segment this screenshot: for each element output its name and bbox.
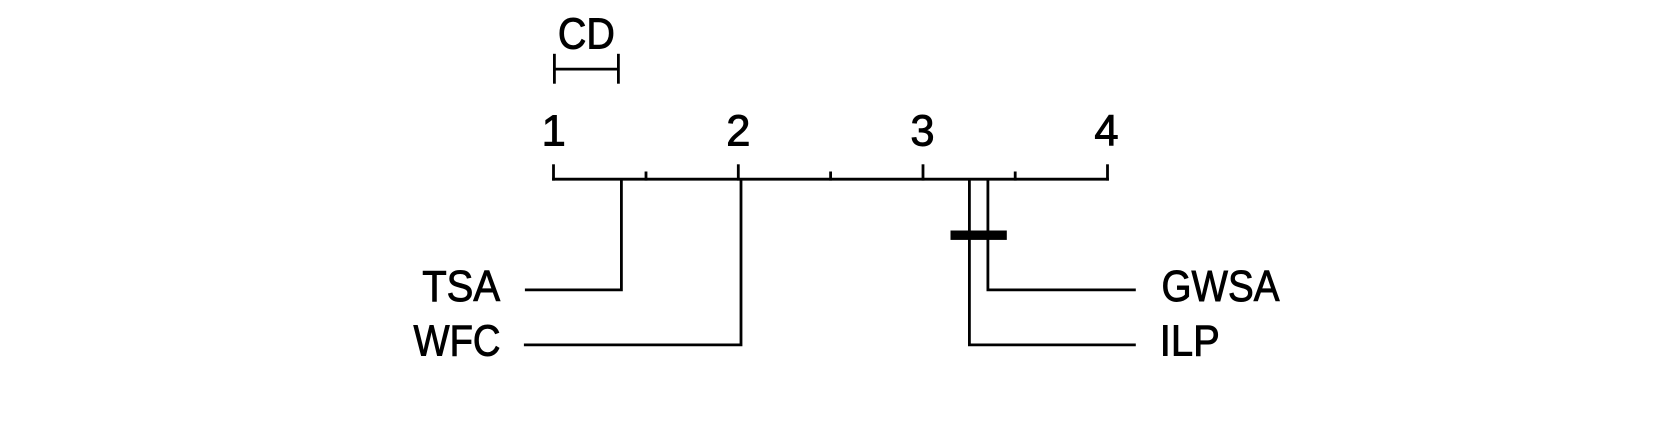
minor ticks <box>646 172 1015 181</box>
ILP connector line <box>969 179 1135 345</box>
GWSA connector line <box>988 179 1136 290</box>
svg-text:WFC: WFC <box>414 317 501 365</box>
svg-text:TSA: TSA <box>422 263 500 311</box>
svg-text:1: 1 <box>542 108 566 156</box>
svg-text:3: 3 <box>910 108 934 156</box>
svg-text:GWSA: GWSA <box>1162 263 1280 311</box>
CD interval bar <box>554 54 618 84</box>
svg-text:CD: CD <box>558 10 615 58</box>
major ticks <box>554 164 1108 180</box>
TSA connector line <box>525 179 622 290</box>
svg-text:2: 2 <box>726 108 750 156</box>
svg-text:ILP: ILP <box>1160 317 1220 365</box>
WFC connector line <box>524 179 741 345</box>
clique bar (ILP-GWSA not significantly different) <box>951 231 1007 240</box>
svg-text:4: 4 <box>1094 108 1118 156</box>
axis line <box>552 178 1109 181</box>
